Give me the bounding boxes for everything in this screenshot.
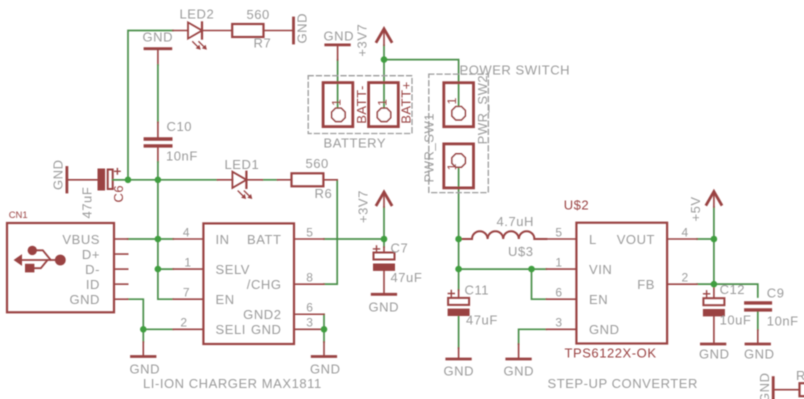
svg-text:2: 2 xyxy=(180,316,187,330)
junction node VBUS/IN xyxy=(155,236,162,243)
ground under C12 xyxy=(701,343,725,346)
connector CN1 box xyxy=(7,223,114,312)
svg-text:LED2: LED2 xyxy=(180,7,215,22)
U1 pin 2 SELI xyxy=(173,328,203,330)
svg-text:GND: GND xyxy=(51,159,66,190)
U1 pin 8 /CHG xyxy=(294,283,324,285)
resistor R6 xyxy=(278,173,338,186)
U1 pin 6 GND2 xyxy=(294,313,324,315)
wire CN1 GND to SELI xyxy=(128,299,174,329)
wire C11 to GND xyxy=(458,316,460,348)
ground under MAX1811 xyxy=(312,342,336,357)
svg-text:5: 5 xyxy=(306,225,313,239)
svg-text:GND: GND xyxy=(444,363,475,378)
capacitor C11 polarized xyxy=(448,290,470,316)
svg-text:47uF: 47uF xyxy=(391,270,423,285)
ground above C10 xyxy=(145,49,171,123)
svg-text:GND: GND xyxy=(130,362,161,377)
wire VOUT to +5V junction xyxy=(697,238,714,240)
svg-text:STEP-UP CONVERTER: STEP-UP CONVERTER xyxy=(548,376,698,391)
svg-text:GND: GND xyxy=(251,322,282,337)
wire FB net xyxy=(697,283,714,285)
ground above battery xyxy=(326,45,350,60)
ground right of R7 (rotated) xyxy=(292,18,295,43)
svg-text:U$2: U$2 xyxy=(564,198,590,213)
svg-text:SELV: SELV xyxy=(216,262,250,277)
junction node FB/C12 xyxy=(711,281,718,288)
wire R6 to /CHG pin8 xyxy=(324,180,337,284)
capacitor C12 polarized xyxy=(703,284,725,343)
wire +5V stem xyxy=(713,207,715,239)
IC U1 MAX1811 box xyxy=(203,223,294,344)
svg-text:D+: D+ xyxy=(82,247,100,262)
svg-text:U$3: U$3 xyxy=(508,244,534,259)
LED LED1 xyxy=(217,172,262,199)
svg-text:PWR_SW2: PWR_SW2 xyxy=(475,75,490,145)
pad BATT+ xyxy=(369,83,399,127)
svg-text:L: L xyxy=(589,232,597,247)
junction node BATT/C7 xyxy=(381,236,388,243)
ground left of C6 (rotated) xyxy=(67,168,98,193)
svg-text:6: 6 xyxy=(555,286,562,300)
svg-text:1: 1 xyxy=(445,163,459,170)
svg-text:560: 560 xyxy=(306,156,329,171)
svg-text:4: 4 xyxy=(682,225,689,239)
svg-text:R7: R7 xyxy=(254,36,272,51)
wire battery GND stem xyxy=(337,60,339,115)
ground under CN1/SELI xyxy=(132,342,156,357)
svg-text:BATTERY: BATTERY xyxy=(324,136,387,151)
svg-text:4.7uH: 4.7uH xyxy=(497,214,534,229)
wire VBUS net xyxy=(128,238,174,240)
junction node VIN/C11 xyxy=(455,266,462,273)
wire LED1 to R6 xyxy=(262,179,277,181)
svg-text:GND: GND xyxy=(324,29,355,44)
U$2 pin 6 EN xyxy=(546,298,576,300)
U$2 pin 3 GND xyxy=(546,328,576,330)
svg-text:GND: GND xyxy=(295,13,310,44)
wire FB junction to C9 xyxy=(714,284,758,297)
svg-text:+3V7: +3V7 xyxy=(355,24,370,57)
svg-text:+3V7: +3V7 xyxy=(356,190,371,223)
CN1 pin VBUS xyxy=(114,238,128,240)
ground bottom-right corner (rotated) xyxy=(773,378,799,399)
wire power switch bottom pad to inductor junction xyxy=(458,161,460,240)
resistor partial bottom-right corner xyxy=(800,383,804,396)
junction node inductor xyxy=(455,236,462,243)
svg-text:C6: C6 xyxy=(111,185,126,203)
svg-text:ID: ID xyxy=(86,277,100,292)
wire +5V junction down to FB junction xyxy=(713,239,715,284)
svg-text:C12: C12 xyxy=(720,282,746,297)
wire top junction to power switch xyxy=(384,60,459,114)
svg-text:+5V: +5V xyxy=(688,196,703,221)
U1 pin 3 GND xyxy=(294,328,324,330)
CN1 pin GND xyxy=(114,298,128,300)
svg-text:6: 6 xyxy=(306,301,313,315)
wire BATT pin5 to +3V7/C7 junction xyxy=(324,238,384,240)
svg-text:47uF: 47uF xyxy=(80,187,95,219)
wire junction to C7 xyxy=(383,239,385,247)
wire VIN net xyxy=(459,268,547,270)
svg-text:GND: GND xyxy=(310,362,341,377)
svg-text:10nF: 10nF xyxy=(767,314,799,329)
resistor R7 xyxy=(202,24,292,37)
svg-text:TPS6122X-OK: TPS6122X-OK xyxy=(565,346,657,361)
svg-text:R: R xyxy=(796,368,804,383)
ground under C11 xyxy=(447,348,471,359)
battery dashed box xyxy=(308,76,412,134)
USB icon xyxy=(14,246,66,273)
svg-text:R6: R6 xyxy=(315,186,333,201)
junction node SELV xyxy=(155,266,162,273)
svg-text:4: 4 xyxy=(183,225,190,239)
capacitor C10 xyxy=(145,122,171,180)
wire pin3 junction to GND symbol xyxy=(323,329,325,342)
svg-text:GND: GND xyxy=(369,300,400,315)
svg-text:GND: GND xyxy=(589,322,620,337)
junction node GND2/GND xyxy=(321,326,328,333)
CN1 pin D+ xyxy=(114,253,128,255)
svg-text:EN: EN xyxy=(589,292,608,307)
junction node VIN/EN xyxy=(528,266,535,273)
svg-text:GND: GND xyxy=(504,363,535,378)
wire C10 junction down to VBUS junction xyxy=(157,180,159,239)
svg-text:5: 5 xyxy=(555,225,562,239)
U$2 pin 4 VOUT xyxy=(667,238,697,240)
svg-text:GND2: GND2 xyxy=(243,307,281,322)
wire EN net xyxy=(532,269,547,299)
wire SELV net vertical xyxy=(158,239,173,299)
svg-text:BATT: BATT xyxy=(247,232,281,247)
svg-text:VOUT: VOUT xyxy=(617,232,655,247)
wire GND2 pin6 down to pin3 xyxy=(323,314,325,329)
svg-text:VIN: VIN xyxy=(589,262,612,277)
svg-text:IN: IN xyxy=(216,232,230,247)
svg-text:PWR_SW1: PWR_SW1 xyxy=(422,113,437,183)
CN1 pin ID xyxy=(114,283,128,285)
svg-text:7: 7 xyxy=(183,286,190,300)
U$2 pin 1 VIN xyxy=(546,268,576,270)
svg-text:C9: C9 xyxy=(767,286,785,301)
svg-text:EN: EN xyxy=(216,292,235,307)
svg-text:47uF: 47uF xyxy=(466,313,498,328)
svg-text:BATT+: BATT+ xyxy=(398,81,413,124)
supply +3V7 top arrow xyxy=(377,29,392,46)
capacitor C6 polarized xyxy=(98,169,129,191)
svg-text:1: 1 xyxy=(184,255,191,269)
U1 pin 7 EN xyxy=(173,298,203,300)
svg-text:1: 1 xyxy=(445,97,459,104)
svg-text:8: 8 xyxy=(306,270,313,284)
wire SELV junction to pin1 xyxy=(158,268,173,270)
svg-text:10nF: 10nF xyxy=(166,149,198,164)
svg-text:3: 3 xyxy=(555,316,562,330)
capacitor C9 xyxy=(746,303,771,310)
capacitor C7 polarized xyxy=(373,246,395,293)
wire LED1 net from junction xyxy=(158,179,218,181)
wire TPS GND pin3 xyxy=(519,329,547,344)
svg-text:560: 560 xyxy=(247,7,270,22)
svg-text:1: 1 xyxy=(330,99,344,106)
svg-text:CN1: CN1 xyxy=(9,210,28,221)
svg-text:BATT-: BATT- xyxy=(354,85,369,124)
wire C9 to GND xyxy=(757,312,759,330)
svg-text:1: 1 xyxy=(375,99,389,106)
IC U$2 TPS6122X box xyxy=(576,223,667,344)
U$2 pin 5 L xyxy=(546,238,576,240)
LED LED2 xyxy=(173,22,207,49)
svg-text:LI-ION CHARGER MAX1811: LI-ION CHARGER MAX1811 xyxy=(143,376,322,391)
wire SELI junction to GND symbol xyxy=(142,329,144,342)
wire C6 to C10 junction xyxy=(114,179,158,181)
wire inductor junction down to VIN junction and C11 xyxy=(458,239,460,290)
CN1 pin D- xyxy=(114,268,128,270)
junction node VOUT/+5V xyxy=(711,236,718,243)
junction node +3V7 top xyxy=(381,56,388,63)
junction node C10 xyxy=(155,177,162,184)
svg-text:1: 1 xyxy=(555,255,562,269)
svg-text:GND: GND xyxy=(69,292,100,307)
ground under C7 xyxy=(372,293,396,296)
svg-text:10uF: 10uF xyxy=(720,313,752,328)
wire +3V7 top to battery and power switch xyxy=(383,45,385,115)
svg-text:/CHG: /CHG xyxy=(247,277,282,292)
junction node C6 xyxy=(125,177,132,184)
svg-text:LED1: LED1 xyxy=(225,157,260,172)
U$2 pin 2 FB xyxy=(667,283,697,285)
svg-text:C7: C7 xyxy=(391,240,409,255)
pad PWR_SW2 (bottom) xyxy=(444,144,474,188)
inductor U$3 4.7uH xyxy=(459,231,547,239)
svg-text:SELI: SELI xyxy=(216,322,246,337)
ground under TPS GND pin xyxy=(507,344,531,359)
junction node SELI/GND xyxy=(140,326,147,333)
pad BATT- xyxy=(323,83,353,127)
supply +5V arrow xyxy=(707,192,722,207)
U1 pin 4 IN xyxy=(173,238,203,240)
svg-text:C11: C11 xyxy=(465,283,490,298)
supply +3V7 arrow near C7 xyxy=(377,192,392,207)
svg-text:FB: FB xyxy=(637,277,655,292)
svg-text:D-: D- xyxy=(85,262,100,277)
svg-text:GND: GND xyxy=(744,347,775,362)
svg-text:VBUS: VBUS xyxy=(62,232,100,247)
wire LED2 net left vertical xyxy=(128,31,173,180)
svg-text:GND: GND xyxy=(757,372,772,399)
pad PWR_SW1 (top) xyxy=(444,83,474,127)
svg-text:GND: GND xyxy=(143,30,174,45)
svg-text:C10: C10 xyxy=(167,119,193,134)
svg-text:3: 3 xyxy=(306,316,313,330)
U1 pin 5 BATT xyxy=(294,238,324,240)
svg-text:GND: GND xyxy=(699,347,730,362)
ground under C9 xyxy=(746,330,770,344)
wire +3V7 stem to junction xyxy=(383,207,385,239)
power switch dashed box xyxy=(429,74,489,193)
svg-text:2: 2 xyxy=(682,270,689,284)
U1 pin 1 SELV xyxy=(173,268,203,270)
